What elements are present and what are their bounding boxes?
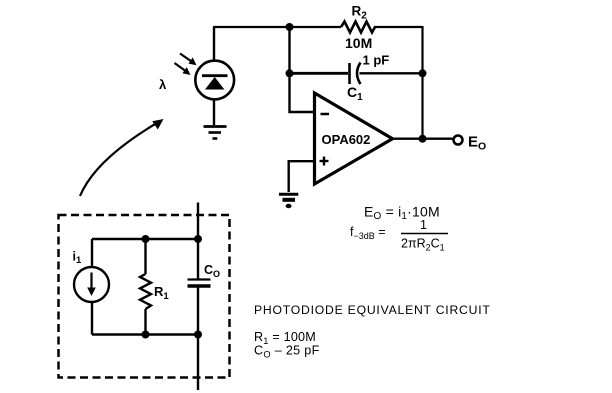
photodiode D1	[195, 61, 234, 100]
dashed equivalent-circuit box	[59, 215, 230, 378]
op-amp minus pin mark	[321, 113, 330, 116]
wire: capacitor branch right segment	[360, 72, 423, 74]
wire: equivalent circuit bottom rail	[92, 333, 198, 335]
op-amp U1 OPA602	[315, 93, 393, 184]
svg-text:EO = i1·10M: EO = i1·10M	[364, 204, 440, 223]
node B: junction of capacitor branch and right column	[419, 69, 427, 77]
wire: photodiode cathode to ground	[213, 99, 215, 125]
svg-text:OPA602: OPA602	[322, 132, 371, 147]
formula f-3dB	[350, 218, 448, 253]
light arrow 2	[175, 63, 191, 75]
resistor R2	[341, 20, 375, 34]
svg-text:1: 1	[420, 218, 427, 232]
node D: output junction with right column	[419, 135, 427, 143]
capacitor C1	[350, 63, 361, 85]
capacitor C0	[188, 280, 211, 287]
svg-text:C1: C1	[347, 84, 363, 103]
svg-text:2πR2C1: 2πR2C1	[401, 237, 445, 253]
svg-text:R2: R2	[352, 4, 368, 22]
svg-text:1 pF: 1 pF	[363, 53, 390, 68]
wire: C0 column upper (extends above box)	[197, 203, 199, 279]
svg-text:R1: R1	[154, 284, 169, 302]
junction dot: top rail / C0	[194, 235, 202, 243]
wire: top feedback rail	[213, 26, 423, 28]
svg-text:f−3dB =: f−3dB =	[350, 225, 386, 241]
ground (op-amp non-inverting input)	[279, 194, 298, 208]
svg-text:10M: 10M	[345, 35, 372, 51]
light arrow 1	[180, 54, 197, 66]
junction dot: bottom rail / R1	[142, 331, 150, 339]
junction dot: bottom rail / C0	[194, 331, 202, 339]
wire: R1 column	[144, 239, 146, 335]
wire: op-amp output	[392, 137, 453, 139]
svg-text:CO: CO	[204, 263, 220, 279]
junction dot: top rail / R1	[142, 235, 150, 243]
svg-text:λ: λ	[159, 77, 167, 92]
wire: right column (R2/C1 to output node)	[421, 26, 423, 140]
current source i1	[74, 267, 109, 302]
wire: photodiode anode up to top feedback rail	[213, 27, 215, 62]
node A: junction of top rail and feedback column	[286, 23, 294, 31]
svg-text:PHOTODIODE EQUIVALENT CIRCUIT: PHOTODIODE EQUIVALENT CIRCUIT	[254, 303, 491, 317]
wire: current source column	[91, 239, 93, 335]
wire: equivalent circuit top rail	[92, 238, 198, 240]
wire: capacitor branch left segment	[290, 72, 349, 75]
ground (photodiode)	[204, 127, 227, 139]
output terminal circle	[454, 136, 463, 145]
svg-text:i1: i1	[73, 250, 82, 267]
resistor R1	[140, 274, 151, 309]
wire: feedback column down to inverting input	[290, 27, 315, 112]
curved arrow from equivalent circuit to photodiode	[80, 119, 164, 196]
op-amp plus pin mark	[320, 157, 329, 166]
wire: non-inverting input to ground	[289, 161, 314, 192]
wire: C0 column lower (extends below box)	[197, 287, 199, 391]
svg-text:EO: EO	[468, 134, 486, 153]
node C: junction of capacitor branch and feedback column	[286, 69, 294, 77]
